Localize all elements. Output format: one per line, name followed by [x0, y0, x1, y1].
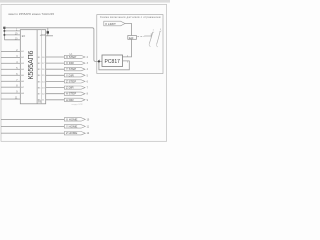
sensor contact hook 1	[149, 44, 150, 47]
svg-text:Y DIR: Y DIR	[66, 73, 74, 77]
image frame border	[1, 5, 167, 142]
wire data D0	[1, 50, 20, 52]
svg-text:+ΟΟ: +ΟΟ	[40, 33, 46, 37]
flag sensor input	[104, 21, 125, 26]
junction dot bus EN1	[3, 30, 5, 32]
wire +5V top rail	[4, 28, 102, 62]
wire data D4	[1, 74, 20, 76]
svg-text:PC817: PC817	[104, 59, 120, 65]
svg-text:A DIR: A DIR	[66, 98, 74, 102]
sensor contact blade 1	[149, 32, 153, 44]
wire data D2	[1, 62, 20, 64]
IC U1 inner divider 1	[36, 30, 38, 104]
svg-text:X STEP: X STEP	[66, 55, 76, 59]
svg-text:1к0: 1к0	[129, 36, 134, 40]
flag A STEP	[64, 92, 85, 96]
svg-text:входы ЧПУ: входы ЧПУ	[72, 104, 84, 106]
wire data D6	[1, 86, 20, 88]
wire Vcc riser	[47, 28, 49, 36]
wire home Y	[1, 125, 64, 127]
wire optocoupler pin3 return	[99, 61, 129, 70]
wire bus to IC pin EN2	[4, 34, 20, 36]
pin numbers right of flags	[87, 57, 89, 102]
junction dot bus EN2	[3, 34, 5, 36]
svg-text:Z STEP: Z STEP	[66, 79, 76, 83]
flag Y DIR	[64, 73, 85, 77]
pin numbers inside right column	[42, 57, 45, 102]
svg-text:К555АП6: К555АП6	[26, 51, 35, 80]
svg-text:Z HOME: Z HOME	[66, 131, 77, 135]
dashed link to sensor contact	[137, 36, 144, 38]
wires IC outputs to flags	[46, 57, 65, 100]
pin numbers left data column	[15, 50, 18, 100]
optocoupler U2 PC817 body	[102, 55, 123, 67]
IC U1 inner divider 2	[40, 30, 42, 104]
top gray band	[0, 0, 170, 3]
sensor blade 2 top tick	[160, 31, 162, 32]
wire sensor feed solid	[144, 35, 151, 37]
svg-text:Y HOME: Y HOME	[66, 124, 77, 128]
wire data D3	[1, 68, 20, 70]
junction dot pin1 net	[98, 60, 100, 62]
IC U1 K555AP6 body	[20, 30, 45, 104]
svg-text:X LIMIT: X LIMIT	[105, 22, 116, 26]
svg-text:Схема включения датчиков с отр: Схема включения датчиков с отражением	[100, 16, 161, 19]
sensor section box	[97, 15, 163, 74]
junction dot top bus	[3, 27, 5, 29]
svg-text:X DIR: X DIR	[66, 61, 74, 65]
wire resistor to optocoupler pin4	[123, 39, 132, 57]
wire home Z	[1, 132, 64, 134]
resistor R1	[128, 36, 137, 40]
pin labels inside mid-right column	[38, 57, 41, 102]
wire bus to IC pin EN1	[4, 30, 20, 32]
junction dot Vcc riser	[47, 31, 49, 33]
sensor contact tick	[150, 33, 152, 38]
svg-text:A STEP: A STEP	[66, 92, 76, 96]
flag Y HOME	[64, 124, 85, 128]
svg-text:Y STEP: Y STEP	[66, 67, 76, 71]
pin numbers right of home flags	[87, 119, 90, 135]
flag A DIR	[64, 98, 85, 102]
sensor contact hook 2	[157, 44, 158, 47]
flag Z HOME	[64, 131, 85, 135]
svg-text:Z DIR: Z DIR	[66, 86, 74, 90]
svg-text:X HOME: X HOME	[66, 117, 77, 121]
wire data D8	[1, 98, 20, 100]
flag X STEP	[64, 55, 85, 59]
node bus-left vertical	[3, 28, 5, 40]
flag Y STEP	[64, 67, 85, 71]
wire data D1	[1, 56, 20, 58]
flag X HOME	[64, 117, 85, 121]
sensor contact blade 2	[157, 31, 161, 44]
wire flag to resistor	[125, 24, 132, 36]
wire home X	[1, 118, 64, 120]
flag X DIR	[64, 61, 85, 65]
wire IC Vcc pin	[46, 35, 53, 37]
wire bus bottom to IC pin	[4, 39, 20, 41]
wire data D5	[1, 80, 20, 82]
svg-text:вместо К555АП6 можно ТАНС245: вместо К555АП6 можно ТАНС245	[9, 12, 55, 16]
wire data D7	[1, 92, 20, 94]
svg-text:ЕО: ЕО	[22, 36, 26, 38]
sensor blade 1 top tick	[152, 32, 154, 33]
pin labels inside left column	[21, 50, 24, 95]
flag Z STEP	[64, 79, 85, 83]
flag Z DIR	[64, 86, 85, 90]
